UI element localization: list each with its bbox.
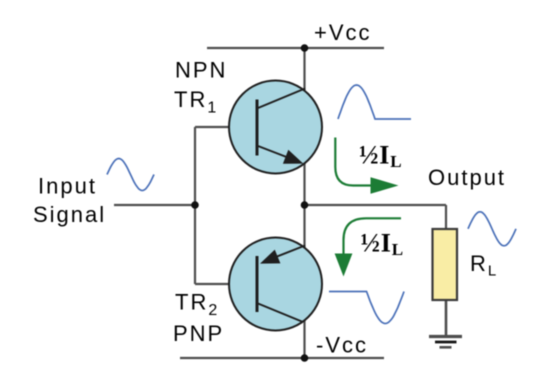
svg-text:½IL: ½IL [359, 141, 402, 172]
svg-text:PNP: PNP [173, 321, 224, 346]
svg-text:½IL: ½IL [361, 229, 404, 260]
svg-text:NPN: NPN [175, 58, 227, 83]
svg-text:-Vcc: -Vcc [316, 333, 368, 358]
svg-text:TR2: TR2 [175, 290, 219, 320]
svg-text:RL: RL [470, 251, 498, 280]
svg-text:+Vcc: +Vcc [314, 20, 372, 45]
svg-text:Output: Output [428, 165, 506, 190]
svg-text:Input: Input [38, 174, 97, 199]
svg-text:Signal: Signal [33, 202, 106, 227]
svg-text:TR1: TR1 [174, 87, 218, 117]
